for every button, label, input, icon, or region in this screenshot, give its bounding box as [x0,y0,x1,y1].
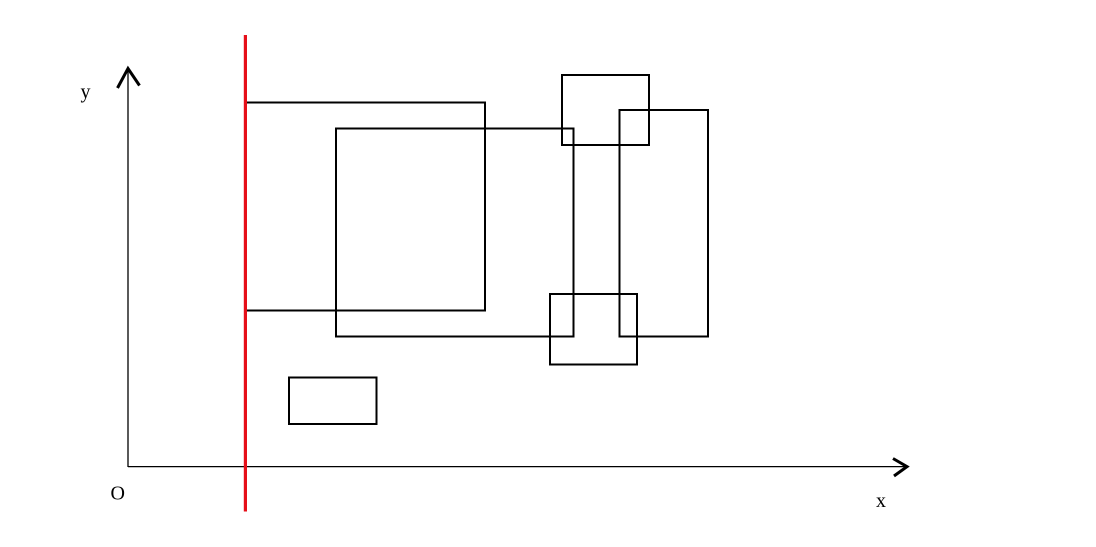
bottom small square [550,294,637,365]
rectangle A (large, left edge on red line) [245,103,485,311]
x-axis line [128,466,905,468]
top small square [562,75,649,145]
svg-text:O: O [111,483,125,505]
svg-text:y: y [81,81,91,103]
x-axis arrowhead [893,459,907,477]
red vertical line [244,35,247,512]
svg-text:x: x [876,490,886,512]
tall right rectangle [620,110,709,337]
small bottom-left rectangle [289,378,377,425]
y-axis line [127,69,129,467]
y-axis arrowhead [118,69,140,89]
rectangle B (large, overlapping A) [336,129,574,337]
